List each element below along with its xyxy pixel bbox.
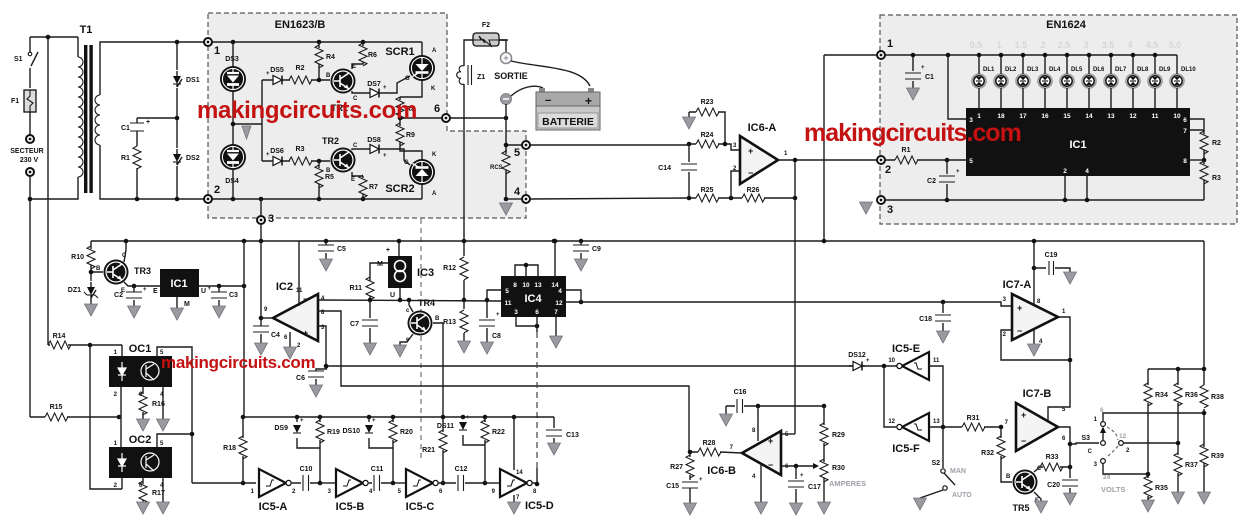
svg-text:C16: C16 [734,389,747,396]
wire fuse to battery plus curve [499,40,506,52]
resistor R32 [981,427,1012,482]
capacitor C13 [546,417,579,455]
wire TR5 emitter ground [1034,492,1048,513]
svg-text:5.0: 5.0 [1169,40,1182,50]
svg-text:+: + [300,418,304,424]
svg-text:3: 3 [887,204,893,216]
resistor R25 [689,187,731,202]
capacitor C18 [919,302,951,343]
svg-text:IC1: IC1 [170,278,187,290]
capacitor C4 [253,318,280,355]
diode DS6 [266,148,285,166]
capacitor C1 [121,118,150,140]
wire IC2 output [261,317,273,319]
svg-text:R4: R4 [326,54,335,61]
svg-text:R30: R30 [832,465,845,472]
node 1 [204,38,220,57]
svg-text:K: K [432,152,437,158]
svg-text:E: E [351,177,355,183]
svg-text:1: 1 [996,40,1001,50]
resistor R1 (EN1624) [885,147,966,164]
svg-text:4: 4 [1127,40,1132,50]
svg-text:DS10: DS10 [342,428,360,435]
svg-text:C8: C8 [492,333,501,340]
wire secondary bottom to node 2 [100,145,204,199]
wire SCR1 anode / cathode [400,42,422,97]
rectifier diode DS3 [220,56,246,92]
svg-text:+: + [266,152,270,158]
svg-text:IC4: IC4 [524,293,542,305]
svg-text:DS3: DS3 [225,56,239,63]
svg-text:K: K [431,86,436,92]
diode DS5 [266,67,285,85]
svg-text:+: + [585,94,592,108]
wire IC1 pin3 feed [948,55,966,119]
svg-text:R35: R35 [1155,485,1168,492]
ground below RCS [500,203,513,215]
resistor R6 [352,42,377,69]
svg-text:SCR1: SCR1 [385,46,414,58]
svg-text:13: 13 [1107,113,1115,120]
wire TR3 collector to bus [124,241,126,262]
svg-text:R29: R29 [832,432,845,439]
svg-text:−: − [748,168,753,178]
wire S3 common from IC7-B [1070,443,1099,444]
svg-text:R23: R23 [701,99,714,106]
current direction grey arrow [242,126,251,139]
svg-text:DS1: DS1 [186,77,200,84]
svg-text:+: + [466,415,470,421]
battery [536,88,600,130]
capacitor C6 [296,366,329,397]
resistor R31 [958,415,1001,431]
wire IC6-A pin2 [731,171,740,198]
svg-text:C: C [353,143,358,149]
capacitor C16 [720,389,759,426]
svg-text:+: + [496,312,500,318]
svg-text:R34: R34 [1155,392,1168,399]
wire DS7 to SCR1 gate [382,76,410,93]
capacitor C17 [788,466,821,515]
transformer T1 [78,24,100,193]
resistor R34 [1144,369,1168,478]
resistor R2 (EN1624) [1200,131,1221,160]
svg-text:R3: R3 [296,146,305,153]
resistor R14 [48,333,122,349]
resistor R5 [315,161,334,199]
svg-text:3: 3 [268,213,274,225]
svg-text:3.5: 3.5 [1102,40,1115,50]
supply rail y417 [243,416,554,418]
wire DC top rail [137,42,177,199]
svg-text:DL4: DL4 [1049,67,1061,73]
resistor R19 [316,417,340,483]
svg-text:IC3: IC3 [417,267,434,279]
svg-text:DL2: DL2 [1005,67,1017,73]
svg-text:U: U [201,288,206,295]
wire IC4 pin4/12 to bus [566,290,581,302]
svg-text:SCR2: SCR2 [385,183,414,195]
wire IC4 pin3 to pin6 [516,317,537,326]
svg-text:makingcircuits.com: makingcircuits.com [804,119,1021,147]
svg-text:C17: C17 [808,484,821,491]
junction [175,40,180,45]
svg-text:6: 6 [1183,117,1187,124]
svg-text:R26: R26 [747,187,760,194]
svg-text:R1: R1 [121,155,130,162]
svg-text:IC6-B: IC6-B [707,465,736,477]
svg-text:IC5-E: IC5-E [892,343,920,355]
svg-text:DS12: DS12 [848,352,866,359]
svg-text:−: − [1021,436,1026,446]
svg-text:−: − [545,95,551,107]
wire S3 pos3 line [1103,463,1148,474]
svg-text:R25: R25 [701,187,714,194]
op-amp IC7-A [1003,279,1066,345]
transistor TR2 [322,136,358,183]
svg-text:DS2: DS2 [186,155,200,162]
svg-text:T1: T1 [80,24,93,36]
svg-text:5: 5 [969,158,973,165]
svg-text:2.5: 2.5 [1058,40,1071,50]
svg-text:R10: R10 [71,254,84,261]
svg-text:SECTEUR: SECTEUR [10,148,43,155]
optocoupler OC1 [109,343,172,398]
main top supply bus [91,240,1204,242]
wire IC4 pin14 to bus [554,241,556,276]
svg-text:R2: R2 [296,65,305,72]
wire IC2 pin 11 to bus [298,241,300,306]
svg-text:24: 24 [1103,474,1111,481]
trimmer R30 [818,459,845,514]
svg-text:DL9: DL9 [1159,67,1171,73]
wire OC1 pin5 to OC2 pin5 column [157,347,192,483]
svg-text:S3: S3 [1081,435,1090,442]
wire IC4 pin7 ground [550,317,563,348]
node 6 [434,103,450,122]
svg-text:+: + [383,85,387,91]
svg-text:2: 2 [1063,168,1067,175]
wire regulator output vertical [243,241,245,417]
svg-text:G: G [405,76,410,82]
svg-text:C13: C13 [566,432,579,439]
diode DS7 [366,81,387,98]
wire node4 line right [530,198,689,199]
svg-text:+: + [207,286,211,292]
resistor R2 [285,65,330,84]
wire IC5-F output [929,426,958,428]
IC4 top pin loop [515,265,538,276]
svg-text:IC6-A: IC6-A [748,122,777,134]
resistor R9 [396,123,422,159]
transistor TR1 [326,64,358,113]
svg-text:AUTO: AUTO [952,492,972,499]
svg-text:AMPERES: AMPERES [829,479,866,488]
svg-text:R32: R32 [981,450,994,457]
svg-text:+: + [146,119,150,126]
svg-text:B: B [1006,474,1011,480]
inductor Z1 [457,65,486,85]
capacitor C2 [114,286,147,318]
inverter IC5-E [897,352,929,380]
capacitor C3 [207,286,238,318]
ground at node3 [860,202,873,214]
svg-text:5: 5 [514,147,520,159]
svg-text:14: 14 [1085,113,1093,120]
svg-text:DL5: DL5 [1071,67,1083,73]
svg-text:R2: R2 [1212,140,1221,147]
resistor R17 [137,478,165,514]
svg-text:TR2: TR2 [322,136,339,146]
svg-text:IC5-A: IC5-A [259,501,288,513]
svg-text:R18: R18 [223,445,236,452]
svg-text:DS5: DS5 [270,67,284,74]
wire secondary top to node 1 [100,42,204,95]
svg-text:R27: R27 [670,464,683,471]
svg-text:4: 4 [1085,168,1089,175]
resistor R35 [1142,473,1168,512]
svg-text:7: 7 [1183,128,1187,135]
EN1624 node 1 [877,38,893,59]
svg-text:+: + [866,358,870,364]
minus output terminal [501,94,512,105]
svg-text:R38: R38 [1211,394,1224,401]
wire TR1 collector to DS7 [352,91,366,93]
svg-text:C1: C1 [121,125,130,132]
ground OC2 pin4 [157,478,170,514]
svg-text:−: − [1017,326,1022,336]
svg-text:IC5-C: IC5-C [406,501,435,513]
ground below DZ1 [85,298,98,316]
wire IC1 pins 6,7 to R2 [1190,119,1204,134]
svg-text:12: 12 [1119,433,1127,440]
inverter IC5-A [251,469,296,513]
svg-text:6: 6 [434,103,440,115]
svg-text:+: + [325,366,329,372]
resistor R3 [285,146,330,165]
svg-text:10: 10 [522,282,530,289]
svg-text:10: 10 [888,358,895,364]
resistor R29 [820,406,845,462]
fuse F2 [473,22,499,46]
svg-text:OC2: OC2 [129,434,152,446]
svg-text:+: + [800,473,804,479]
svg-text:makingcircuits.com: makingcircuits.com [161,353,315,372]
svg-text:R5: R5 [325,174,334,181]
resistor R36 [1174,369,1198,443]
wire node 6 line [400,117,506,119]
reference IC3 [377,239,434,299]
svg-text:C3: C3 [229,292,238,299]
wire IC6-B pin6 to R30 wiper [781,465,813,467]
svg-text:1.5: 1.5 [1015,40,1028,50]
svg-text:R13: R13 [443,319,456,326]
wire IC7-A pin8 to supply bus [1033,241,1035,305]
svg-text:TR4: TR4 [418,298,435,308]
capacitor C15 [666,477,703,515]
signal bus y300 left [318,300,501,301]
diode DS9 [274,417,320,448]
svg-text:IC5-F: IC5-F [892,443,920,455]
wire node6 to Z1 column [464,40,508,241]
wire SCR2 leads [421,185,423,199]
svg-text:4: 4 [558,288,562,295]
wire TR2 collector to DS8 [352,149,366,150]
svg-text:15: 15 [1063,113,1071,120]
svg-text:C11: C11 [371,466,384,473]
capacitor C10 [292,466,320,491]
inverter IC5-F [897,413,929,441]
svg-text:+: + [383,153,387,159]
svg-text:DS4: DS4 [225,178,239,185]
svg-text:C19: C19 [1045,252,1058,259]
svg-text:IC1: IC1 [1069,139,1086,151]
wire DS3-DS4 midpoint [233,42,269,199]
resistor R33 [1034,454,1070,472]
svg-text:SORTIE: SORTIE [494,71,528,81]
resistor R28 [690,440,742,456]
capacitor C20 [1047,467,1078,505]
svg-text:DS7: DS7 [367,81,381,88]
node 5 [514,141,530,159]
transistor TR4 [406,298,440,343]
dashed partition line below EN1623 [420,219,422,458]
svg-text:EN1624: EN1624 [1046,19,1087,31]
svg-text:F2: F2 [482,22,490,29]
LEDs DL1-DL10 [972,53,1196,108]
svg-text:R12: R12 [443,265,456,272]
node 2 [204,184,220,203]
svg-text:2: 2 [1040,40,1045,50]
svg-text:11: 11 [505,300,512,307]
EN1624 top rail [885,54,1177,56]
inverter IC5-B [320,482,336,484]
svg-text:+: + [956,169,960,175]
svg-text:A: A [432,48,437,54]
svg-text:DL6: DL6 [1093,67,1105,73]
resistor R20 [389,417,413,483]
svg-text:RCS: RCS [490,165,503,171]
SCR1 [385,46,437,92]
resistor R23 [689,99,725,144]
wire IC5-D output [532,482,537,484]
svg-text:IC5-D: IC5-D [525,500,554,512]
svg-text:R36: R36 [1185,392,1198,399]
bus A from IC2 pin3 [318,326,899,366]
svg-text:DL3: DL3 [1027,67,1039,73]
svg-text:13: 13 [933,419,940,425]
wire IC6-B pin4 ground [755,464,768,514]
svg-text:B: B [435,316,440,322]
diode DS11 [437,415,485,445]
node 3 [257,213,274,225]
wire minus terminal down to RCS [506,104,689,152]
timer IC4 [501,276,566,317]
mains left rail wire [30,37,78,417]
svg-text:DL8: DL8 [1137,67,1149,73]
svg-text:3: 3 [1083,40,1088,50]
svg-text:2: 2 [885,164,891,176]
svg-text:−: − [303,294,308,304]
capacitor C11 [369,466,393,491]
resistor R39 [1198,444,1224,504]
resistor R21 [422,417,447,483]
mains terminal top [26,135,34,143]
resistor R38 [1200,385,1224,408]
capacitor C1 [905,53,934,100]
svg-text:+: + [372,418,376,424]
svg-text:IC2: IC2 [276,281,293,293]
wire TR3 base / zener [91,272,103,281]
svg-text:1: 1 [214,45,220,57]
op-amp IC7-B [1005,388,1066,451]
EN1624 dashed module box [880,15,1237,224]
voltage regulator IC1 [153,269,206,320]
svg-text:R33: R33 [1046,454,1059,461]
wire OC1 pin1 [121,345,123,356]
wire IC5-F feed [884,366,896,427]
resistor R18 [223,417,247,483]
SCR2 [385,152,437,197]
svg-text:+: + [699,477,703,483]
EN1623/B dashed module box with RCS annex [208,13,526,218]
svg-text:Z1: Z1 [477,74,485,81]
wire IC1 output [199,285,244,287]
wire TR4 base down [433,323,443,417]
resistor R22 [481,417,505,483]
svg-text:3: 3 [514,309,518,316]
svg-text:TR5: TR5 [1012,503,1029,513]
svg-text:12: 12 [1129,113,1137,120]
bus B from IC2 pin8 [318,311,689,452]
svg-text:M: M [377,261,383,268]
svg-text:12: 12 [555,300,563,307]
svg-text:2: 2 [214,184,220,196]
svg-text:R20: R20 [400,429,413,436]
svg-text:R22: R22 [492,429,505,436]
svg-text:16: 16 [1041,113,1049,120]
optocoupler OC2 [109,434,172,489]
svg-text:DZ1: DZ1 [68,287,81,294]
svg-text:5: 5 [505,288,509,295]
wire node1 feed from bus [824,55,877,241]
capacitor C9 on bus [573,241,601,271]
svg-text:F1: F1 [11,98,19,105]
svg-text:4: 4 [514,186,521,198]
resistor R12 [443,241,468,300]
capacitor C7 [350,300,378,355]
svg-text:R9: R9 [406,132,415,139]
ground at R23 [683,112,696,129]
wire IC6-A output to node 2 [778,160,877,434]
svg-text:−: − [768,460,773,470]
svg-text:C20: C20 [1047,482,1060,489]
mains terminal bottom [26,168,34,176]
transistor TR5 [1006,466,1042,513]
resistor R37 [1172,445,1198,504]
fuse F1 [11,90,36,112]
resistor R4 [315,42,335,80]
svg-text:+: + [768,436,773,446]
switch S2 [914,427,973,510]
svg-text:makingcircuits.com: makingcircuits.com [197,97,417,124]
svg-text:G: G [404,160,409,166]
svg-text:14: 14 [516,470,523,476]
svg-text:4.5: 4.5 [1146,40,1159,50]
IC1 display driver [966,108,1190,176]
svg-text:+: + [1017,303,1022,313]
svg-text:C4: C4 [271,332,280,339]
